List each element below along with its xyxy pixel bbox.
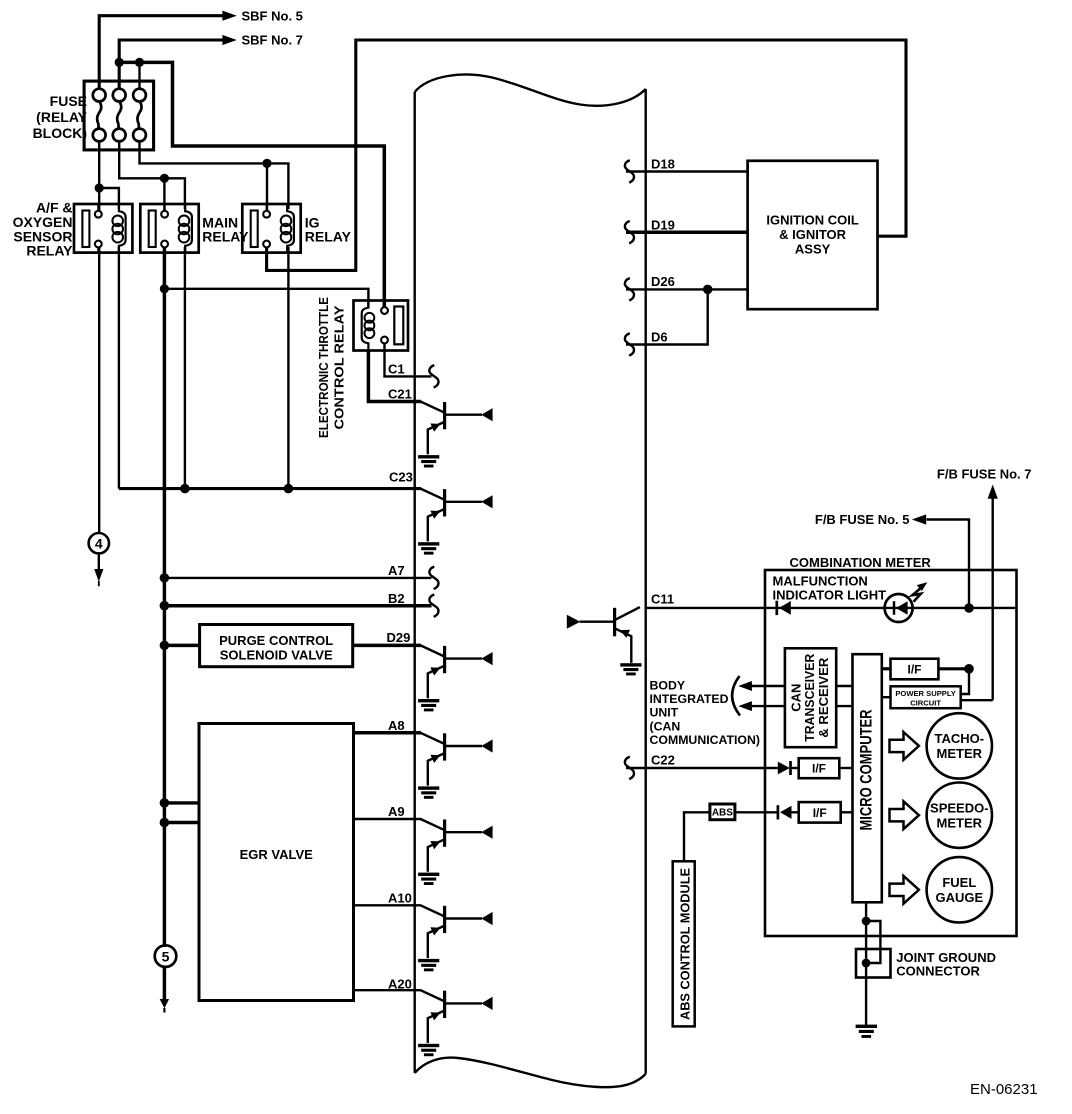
svg-text:COMMUNICATION): COMMUNICATION) [650, 733, 760, 747]
ground symbol joint connector [856, 1025, 877, 1028]
svg-text:ABS: ABS [712, 808, 733, 819]
svg-text:SBF No. 5: SBF No. 5 [242, 8, 303, 23]
transistor D29 [418, 645, 493, 711]
LED malfunction indicator light [885, 582, 928, 622]
junction dot I/F 1 [964, 664, 974, 674]
svg-text:MALFUNCTION: MALFUNCTION [773, 574, 868, 589]
wire micro to power supply [882, 696, 891, 698]
svg-text:A10: A10 [388, 890, 412, 905]
wire pin B2 [164, 604, 431, 608]
svg-text:CONTROL RELAY: CONTROL RELAY [332, 305, 347, 429]
I/F box 2 [799, 758, 840, 778]
wire diode to ABS box [735, 811, 777, 813]
transistor C21 [418, 402, 493, 468]
ignition coil and ignitor assy box [748, 161, 878, 309]
transistor A20 [418, 990, 493, 1056]
arrow F/B fuse No.7 [988, 485, 998, 499]
junction dot fuse2 top [115, 58, 124, 67]
wire to main relay coil [164, 178, 185, 209]
svg-text:CONNECTOR: CONNECTOR [896, 963, 980, 978]
wire power supply to F/B fuse 7 [961, 699, 993, 701]
diode C22 [778, 762, 790, 775]
wire main relay coil to C23 net [184, 247, 186, 489]
svg-text:INDICATOR LIGHT: INDICATOR LIGHT [773, 588, 887, 603]
wire CAN to micro computer 1 [836, 685, 852, 687]
junction dot B2 [160, 601, 170, 611]
break C22 [625, 757, 634, 779]
svg-text:GAUGE: GAUGE [935, 890, 983, 905]
wire IG coil to C23 net [287, 247, 289, 489]
wire micro to I/F 1 [882, 667, 891, 670]
svg-text:UNIT: UNIT [650, 706, 679, 720]
svg-text:(CAN: (CAN [650, 719, 681, 733]
break D26 [625, 278, 634, 300]
node 5 circle [155, 945, 177, 967]
micro computer box [853, 654, 882, 902]
svg-text:A7: A7 [388, 563, 405, 578]
wire micro ground [865, 902, 867, 1025]
joint ground connector box [856, 949, 891, 978]
wire fuse1 to A/F relay contact [98, 142, 100, 212]
wire fuse2 to main relay [119, 142, 164, 179]
junction dot ETC feed [160, 284, 169, 293]
svg-text:4: 4 [95, 535, 103, 551]
svg-text:IGNITION COIL: IGNITION COIL [766, 212, 859, 227]
wire pin C11 to MIL [646, 607, 1017, 609]
junction dot EGR stub 2 [160, 818, 170, 828]
wire to IG relay contact [266, 163, 268, 211]
arrow to FUELGAUGE [890, 876, 919, 904]
svg-text:TACHO-: TACHO- [935, 731, 985, 746]
ABS control module box [673, 861, 695, 1026]
wire to F/B fuse No.5 [927, 520, 970, 609]
wire ETC relay coil feed [164, 289, 368, 307]
svg-text:F/B FUSE No. 5: F/B FUSE No. 5 [815, 512, 910, 527]
wire purge feed [164, 644, 200, 648]
power supply circuit box [891, 686, 961, 708]
wire pin D18 [626, 170, 748, 172]
wire fuse3 to IG relay [140, 142, 268, 164]
svg-text:RELAY: RELAY [305, 229, 352, 245]
svg-text:D26: D26 [651, 274, 675, 289]
gauge FUELGAUGE [927, 857, 992, 922]
svg-text:D6: D6 [651, 330, 668, 345]
svg-text:A8: A8 [388, 718, 405, 733]
svg-text:& RECEIVER: & RECEIVER [816, 657, 831, 738]
wire ABS box to ABS control module [684, 812, 710, 861]
relay MAIN [140, 204, 198, 253]
svg-text:MICRO COMPUTER: MICRO COMPUTER [858, 709, 876, 830]
CAN transceiver and receiver box [785, 648, 836, 747]
svg-text:C22: C22 [651, 753, 675, 768]
svg-text:C11: C11 [651, 592, 674, 607]
svg-text:A9: A9 [388, 804, 405, 819]
ECM right edge [645, 89, 647, 1074]
purge control solenoid valve box [200, 625, 353, 667]
diode ABS [777, 805, 780, 819]
arrow F/B fuse No.5 [912, 514, 926, 524]
svg-text:FUSE: FUSE [50, 93, 87, 109]
wire to IG relay coil [267, 163, 288, 209]
wire SBF No.7 feed [119, 40, 223, 90]
wire fuse node to power supply [961, 669, 969, 694]
wire diode to I/F 2 [791, 767, 799, 769]
svg-text:I/F: I/F [908, 663, 922, 677]
ECM top edge (torn) [415, 75, 646, 106]
ECM left edge [414, 92, 416, 1073]
junction dot main relay feed [160, 174, 169, 183]
junction dot purge feed [160, 641, 170, 651]
I/F box 3 [799, 802, 841, 823]
wire pin A8 [354, 731, 422, 735]
break D18 [625, 160, 634, 182]
svg-text:(RELAY: (RELAY [36, 109, 87, 125]
svg-text:EN-06231: EN-06231 [970, 1081, 1038, 1098]
svg-text:D18: D18 [651, 157, 675, 172]
transistor A10 [418, 905, 493, 971]
junction dot IG relay feed [262, 159, 271, 168]
arrow to SPEEDO-METER [890, 801, 919, 829]
svg-text:BODY: BODY [650, 679, 686, 693]
junction dot IG coil / C23 [284, 484, 294, 494]
wire CAN low to BIU [752, 705, 785, 707]
transistor A9 [418, 819, 493, 885]
wire pin D26 [626, 288, 748, 290]
svg-text:ABS CONTROL MODULE: ABS CONTROL MODULE [678, 868, 693, 1020]
wire I/F 1 to fuse node [938, 667, 969, 670]
svg-text:D19: D19 [651, 217, 675, 232]
wire main relay contact bus [163, 247, 167, 947]
junction dot fuse3 top [135, 58, 144, 67]
svg-text:& IGNITOR: & IGNITOR [779, 227, 847, 242]
wire pin A10 [354, 904, 422, 906]
BIU arc [732, 676, 740, 716]
svg-text:INTEGRATED: INTEGRATED [650, 692, 729, 706]
wire pin C1 [385, 343, 432, 376]
junction dot ground 1 [862, 917, 871, 926]
svg-text:B2: B2 [388, 591, 405, 606]
svg-text:C1: C1 [388, 362, 405, 377]
wire IG contact to ignition coil assy [267, 40, 906, 270]
svg-text:C23: C23 [389, 470, 413, 485]
junction dot D26/D6 [703, 285, 713, 295]
junction dot ground 2 [862, 959, 871, 968]
arrow below node 4 [98, 554, 100, 570]
svg-text:METER: METER [937, 815, 983, 830]
svg-text:5: 5 [162, 948, 170, 964]
wire A/F coil to C23 net [118, 247, 120, 489]
relay IG [242, 204, 300, 253]
arrow CAN high [738, 681, 752, 691]
junction dot A7 [160, 573, 170, 583]
wire pin A20 [354, 989, 422, 991]
wire pin D19 [626, 230, 748, 234]
fuse 3 [133, 89, 146, 142]
gauge SPEEDO-METER [927, 783, 992, 848]
wire fuse3 top stub [138, 62, 140, 90]
wire pin D6 [626, 289, 708, 344]
svg-text:PURGE CONTROL: PURGE CONTROL [219, 633, 333, 648]
svg-text:EGR VALVE: EGR VALVE [240, 847, 314, 862]
junction dot MIL / F/B fuse 5 [964, 603, 974, 613]
svg-text:I/F: I/F [812, 762, 826, 776]
wire pin A9 [354, 818, 422, 820]
wire I/F 3 to micro [841, 811, 853, 813]
fuse block box [84, 81, 154, 150]
svg-text:POWER SUPPLY: POWER SUPPLY [895, 689, 955, 698]
svg-text:ELECTRONIC THROTTLE: ELECTRONIC THROTTLE [316, 297, 331, 438]
arrow SBF No.5 [222, 11, 236, 21]
I/F box 1 [891, 659, 939, 680]
break C1 [429, 365, 438, 387]
junction dot A/F branch [95, 183, 104, 192]
break B2 [429, 595, 438, 617]
wire to main relay contact [163, 178, 165, 211]
fuse 2 [113, 89, 126, 142]
svg-text:A20: A20 [388, 976, 412, 991]
svg-text:TRANSCEIVER: TRANSCEIVER [802, 653, 817, 742]
wire I/F 3 to diode [791, 811, 798, 813]
wire fuse top bus to ETC relay feed [119, 62, 384, 307]
wire pin D29 [353, 644, 421, 648]
wire CAN to micro computer 2 [836, 705, 852, 707]
svg-text:SOLENOID VALVE: SOLENOID VALVE [220, 647, 333, 662]
transistor C11 [567, 607, 642, 675]
svg-text:F/B FUSE No. 7: F/B FUSE No. 7 [937, 466, 1032, 481]
wire pin A7 [164, 577, 431, 579]
fuse 1 [93, 89, 106, 142]
svg-text:I/F: I/F [813, 806, 827, 820]
transistor A8 [418, 733, 493, 799]
wire pin C21 [368, 351, 421, 402]
wire SBF No.5 feed [99, 16, 223, 90]
junction dot main coil / C23 [180, 484, 190, 494]
svg-text:BLOCK): BLOCK) [33, 125, 87, 141]
arrow to TACHO-METER [890, 732, 919, 760]
wire A/F contact to circle 4 [98, 247, 100, 533]
ABS box [710, 804, 735, 820]
ECM bottom edge (torn) [415, 1058, 646, 1088]
svg-text:CIRCUIT: CIRCUIT [910, 699, 941, 708]
gauge TACHO-METER [927, 713, 992, 778]
wire branch to A/F relay coil [99, 188, 119, 209]
relay electronic throttle control [354, 301, 409, 351]
svg-text:RELAY: RELAY [26, 243, 73, 259]
wire I/F 2 to micro [839, 767, 852, 769]
relay A/F & oxygen sensor [74, 204, 132, 253]
svg-text:FUEL: FUEL [942, 875, 976, 890]
svg-text:C21: C21 [388, 386, 412, 401]
transistor C23 [418, 489, 493, 555]
svg-text:D29: D29 [387, 630, 411, 645]
arrow SBF No.7 [222, 35, 236, 45]
wire to F/B fuse No.7 [992, 492, 994, 700]
arrow below node 5 [163, 967, 167, 999]
node 4 circle [89, 533, 109, 553]
break A7 [429, 567, 438, 589]
junction dot EGR stub 1 [160, 798, 170, 808]
combination meter box [765, 570, 1017, 936]
wire ground loop [866, 921, 880, 963]
svg-text:METER: METER [937, 746, 983, 761]
wire EGR stub 1 [164, 801, 200, 804]
wire pin C22 [626, 767, 778, 769]
svg-text:COMBINATION METER: COMBINATION METER [790, 555, 932, 570]
break D6 [625, 333, 634, 355]
arrow CAN low [738, 701, 752, 711]
wire CAN high to BIU [752, 685, 785, 687]
EGR valve box [199, 724, 354, 1001]
svg-text:SPEEDO-: SPEEDO- [930, 800, 989, 815]
svg-text:ASSY: ASSY [795, 242, 831, 257]
diode MIL [775, 601, 778, 615]
break D19 [625, 221, 634, 243]
svg-text:SBF No. 7: SBF No. 7 [242, 33, 303, 48]
wire pin C23 [119, 487, 421, 490]
wire EGR stub 2 [164, 821, 200, 824]
